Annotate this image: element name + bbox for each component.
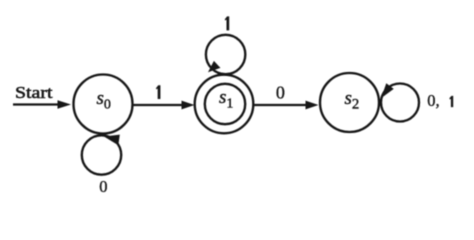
svg-text:0,: 0,	[427, 91, 439, 110]
svg-text:Start: Start	[15, 83, 53, 102]
svg-text:s2: s2	[345, 88, 360, 112]
svg-text:0: 0	[276, 83, 285, 103]
svg-text:s0: s0	[97, 88, 111, 112]
svg-text:0: 0	[99, 177, 107, 196]
s1-s2 arrowhead	[306, 101, 319, 110]
s2 self-loop circle	[381, 84, 419, 122]
state s1 outer circle	[195, 75, 254, 134]
s0-s1 arrowhead	[182, 101, 195, 110]
start arrowhead	[58, 100, 72, 109]
wire start-arrow shaft	[13, 103, 60, 105]
s1 self-loop arrowhead	[208, 61, 220, 72]
label 1 of "0, 1" beside s2 loop	[449, 96, 453, 107]
wire s0 to s1 shaft	[133, 104, 183, 106]
s0 self-loop arrowhead	[104, 135, 120, 146]
s0 self-loop circle	[82, 135, 121, 174]
label 1 above s1 loop	[225, 16, 229, 30]
wire s1 to s2 shaft	[254, 104, 308, 106]
label 1 on s0-s1 arrow	[156, 85, 160, 99]
state s1 inner circle	[205, 84, 245, 124]
svg-text:s1: s1	[219, 87, 233, 111]
state s2 circle	[320, 73, 379, 132]
state s0 circle	[74, 75, 133, 134]
s2 self-loop arrowhead	[381, 83, 394, 98]
s1 self-loop circle	[206, 35, 245, 74]
